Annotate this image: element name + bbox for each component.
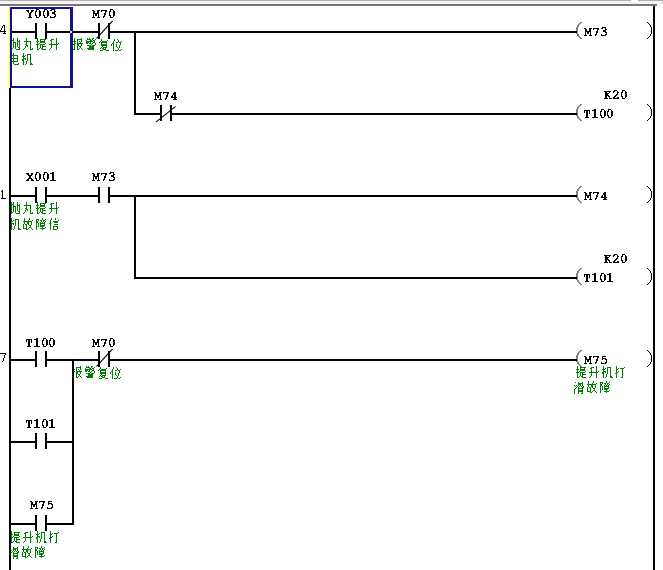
wire T101 branch from rail <box>11 441 35 443</box>
label step number 1 <box>1 190 6 199</box>
comment text 报警复位 rung3 <box>72 366 121 379</box>
wire rung1 rail to Y003 <box>11 31 35 33</box>
wire rung3 branch vertical <box>72 359 74 525</box>
wire rung2 X001 to M73 <box>47 195 98 197</box>
left rail selected segment (yellow) <box>9 7 11 88</box>
wire M75 branch from rail <box>11 523 35 525</box>
label M70 rung3 label <box>92 338 115 347</box>
label step number 4 <box>0 25 6 34</box>
label M70 <box>92 9 115 18</box>
coil M75 coil <box>577 350 653 367</box>
label X001 <box>26 172 56 181</box>
coil T101 coil <box>577 268 653 285</box>
comment text 电机 rung1 line2 <box>10 53 33 65</box>
contact M70 (normally closed) <box>97 21 113 39</box>
junction pixel on selection edge <box>70 31 72 33</box>
wire T101 branch to vertical <box>47 441 72 443</box>
comment text 滑故障 bottom line2 <box>9 546 45 559</box>
left power rail <box>9 7 11 570</box>
comment text 提升机打 coil comment line1 <box>576 366 625 378</box>
wire rung2 M73 to coil M74 <box>110 195 577 197</box>
right power rail <box>653 6 655 570</box>
wire branch2 to coil T101 <box>136 277 577 279</box>
label M73 contact label <box>92 172 115 181</box>
contact T101 contact (normally open) <box>35 433 47 449</box>
wire rung1 M70 to coil M73 <box>110 31 577 33</box>
label T100 contact label <box>26 338 55 347</box>
label K20 timer value 1 <box>604 90 627 99</box>
selection cursor box <box>10 7 73 88</box>
toolbar strip notches <box>631 0 663 6</box>
comment text 报警复位 rung1 <box>73 38 122 51</box>
comment text 提升机打 bottom line1 <box>10 531 59 543</box>
contact M75 contact (normally open) <box>35 515 47 531</box>
coil T100 <box>577 104 653 121</box>
wire branch1 to M74 <box>136 113 160 115</box>
contact M70 rung3 (normally closed) <box>97 349 113 367</box>
wire rung1 branch vertical <box>134 31 136 115</box>
contact M74 (normally closed) <box>156 105 176 122</box>
wire rung3 M70 to coil M75 <box>110 359 577 361</box>
wire rung3 rail to T100 <box>11 359 35 361</box>
coil M73 <box>577 22 653 39</box>
comment text 抛丸提升 rung2 line1 <box>10 202 59 214</box>
wire M75 branch to vertical <box>47 523 72 525</box>
label Y003 <box>26 9 56 18</box>
wire rung1 Y003 to M70 <box>47 31 98 33</box>
contact X001 (normally open) <box>35 187 47 203</box>
label M74 <box>154 92 177 100</box>
coil M74 coil <box>577 186 653 203</box>
wire rung3 T100 to M70 <box>47 359 98 361</box>
wire branch1 M74 to coil T100 <box>172 113 577 115</box>
label M75 contact label <box>30 501 53 509</box>
comment text 抛丸提升 rung1 line1 <box>10 38 59 50</box>
contact T100 contact (normally open) <box>35 351 47 367</box>
contact Y003 (normally open) <box>35 23 47 39</box>
label T101 contact label <box>26 419 55 428</box>
wire rung2 branch vertical <box>134 195 136 279</box>
contact M73 contact (normally open) <box>98 187 110 203</box>
label K20 timer value 2 <box>604 254 627 263</box>
label step number 7 <box>0 353 6 362</box>
comment text 滑故障 coil comment line2 <box>574 381 610 394</box>
comment text 机故障信 rung2 line2 <box>10 218 59 230</box>
toolbar bottom edge strip <box>0 0 663 6</box>
wire rung2 rail to X001 <box>11 195 35 197</box>
